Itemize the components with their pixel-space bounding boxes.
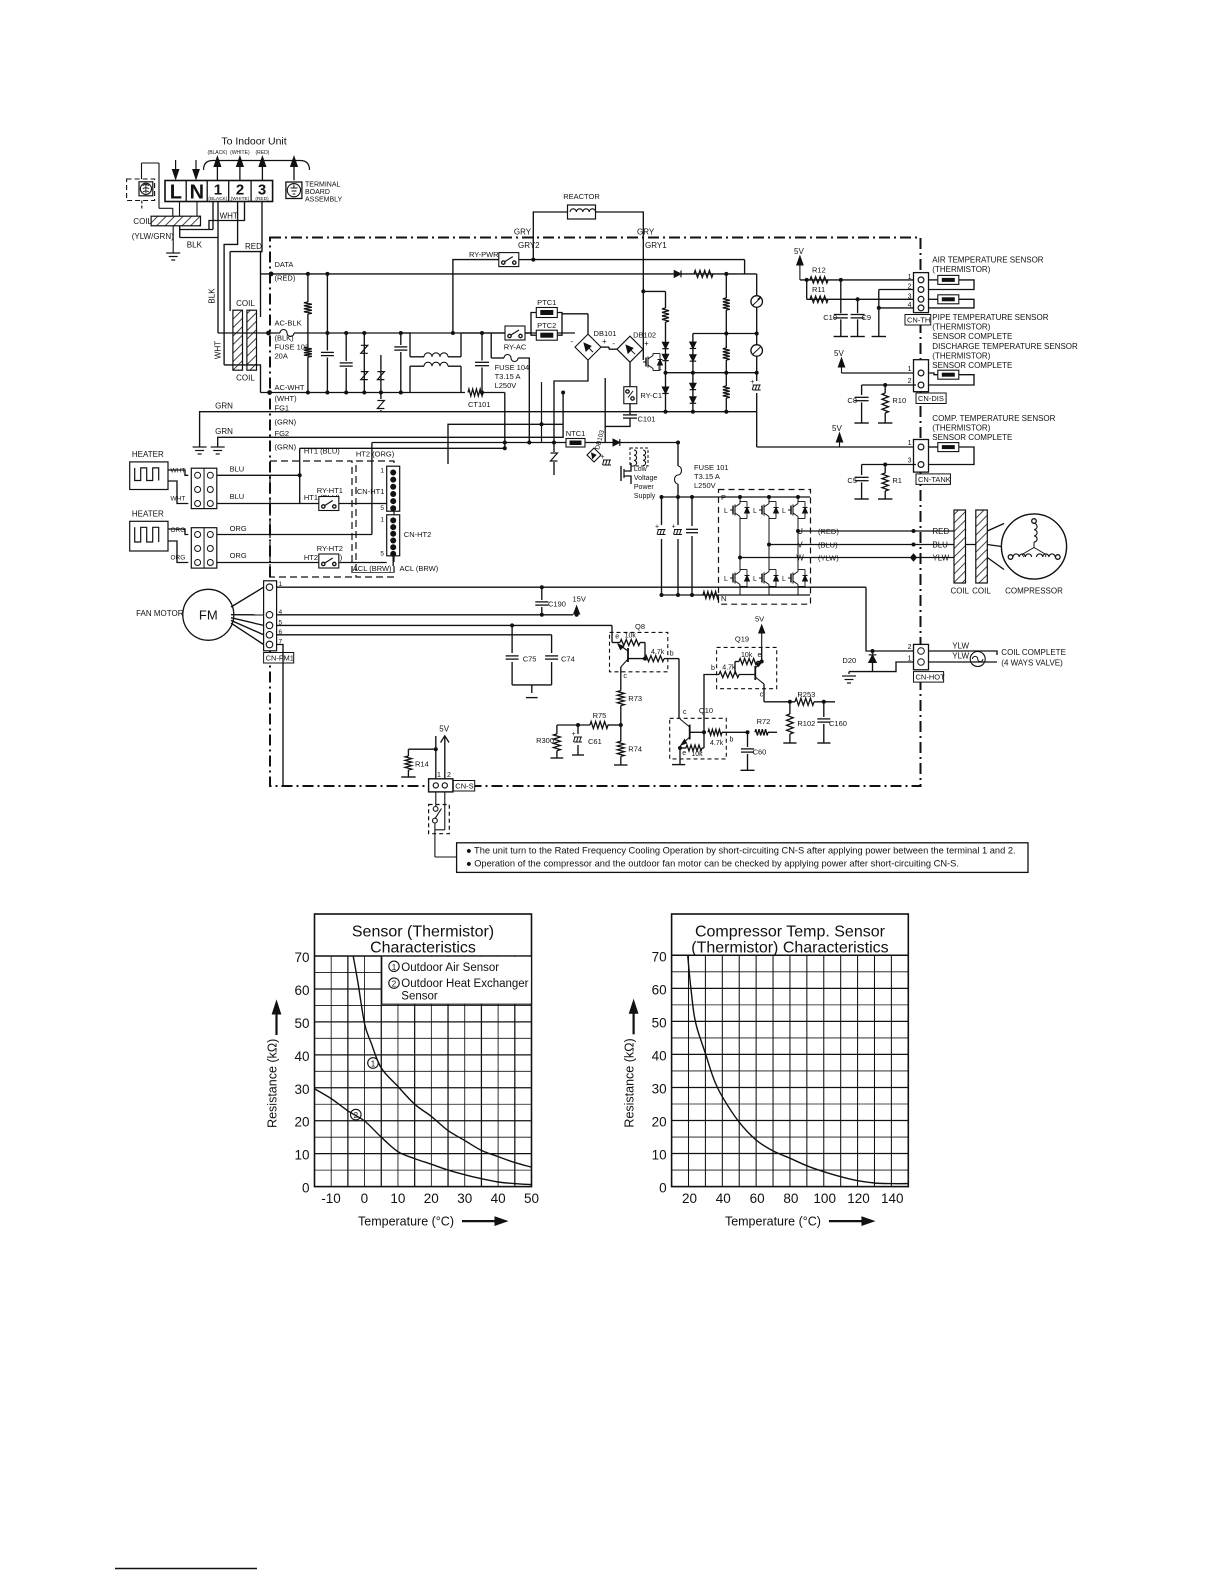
svg-text:2: 2 [236, 182, 244, 199]
svg-text:R10: R10 [892, 396, 906, 405]
svg-text:R1: R1 [892, 476, 902, 485]
svg-text:PTC1: PTC1 [537, 298, 556, 307]
svg-text:4.7k: 4.7k [651, 649, 665, 656]
svg-text:10k: 10k [691, 751, 703, 758]
svg-text:L: L [753, 576, 757, 583]
svg-text:2: 2 [908, 284, 912, 291]
svg-text:120: 120 [847, 1191, 870, 1206]
svg-text:5V: 5V [794, 247, 804, 256]
svg-text:Sensor: Sensor [401, 991, 438, 1003]
svg-text:(RED): (RED) [818, 527, 839, 536]
svg-text:YLW: YLW [952, 652, 969, 661]
svg-text:R73: R73 [628, 694, 642, 703]
svg-text:40: 40 [491, 1191, 506, 1206]
svg-text:BLU: BLU [230, 465, 245, 474]
svg-text:COMPRESSOR: COMPRESSOR [1005, 587, 1063, 596]
svg-text:R74: R74 [628, 745, 642, 754]
svg-text:3: 3 [258, 182, 266, 199]
svg-text:ORG: ORG [171, 527, 186, 534]
svg-text:ORG: ORG [171, 555, 186, 562]
svg-text:1: 1 [392, 963, 397, 972]
svg-text:YLW: YLW [932, 554, 949, 563]
svg-text:2: 2 [908, 378, 912, 385]
svg-text:REACTOR: REACTOR [563, 192, 600, 201]
svg-text:DB101: DB101 [594, 329, 617, 338]
svg-text:ACL (BRW): ACL (BRW) [400, 564, 439, 573]
svg-text:60: 60 [652, 982, 667, 997]
svg-text:2: 2 [354, 1111, 359, 1120]
svg-text:50: 50 [652, 1015, 667, 1030]
svg-text:SENSOR COMPLETE: SENSOR COMPLETE [932, 361, 1012, 370]
svg-text:RY-HT2: RY-HT2 [317, 544, 343, 553]
svg-text:C9: C9 [862, 313, 872, 322]
svg-text:L: L [724, 576, 728, 583]
svg-text:C5: C5 [847, 476, 857, 485]
svg-text:L: L [782, 508, 786, 515]
svg-text:1: 1 [380, 468, 384, 475]
svg-text:SENSOR COMPLETE: SENSOR COMPLETE [932, 332, 1012, 341]
svg-text:SENSOR COMPLETE: SENSOR COMPLETE [932, 433, 1012, 442]
svg-text:GRY1: GRY1 [645, 241, 667, 250]
svg-text:10: 10 [652, 1148, 667, 1163]
svg-text:COIL: COIL [950, 587, 969, 596]
svg-text:Characteristics: Characteristics [370, 939, 476, 956]
svg-text:RY-HT1: RY-HT1 [317, 486, 343, 495]
svg-text:(4 WAYS VALVE): (4 WAYS VALVE) [1001, 659, 1063, 668]
svg-text:ORG: ORG [230, 524, 247, 533]
svg-text:2: 2 [908, 644, 912, 651]
svg-text:COIL COMPLETE: COIL COMPLETE [1001, 648, 1066, 657]
svg-text:+: + [644, 339, 649, 348]
svg-text:c: c [683, 709, 687, 716]
svg-text:CN-HOT: CN-HOT [916, 673, 946, 682]
svg-text:C101: C101 [638, 415, 656, 424]
svg-text:(GRN): (GRN) [275, 443, 297, 452]
svg-text:3: 3 [908, 293, 912, 300]
svg-text:R12: R12 [812, 266, 826, 275]
svg-text:U: U [797, 527, 803, 536]
svg-text:30: 30 [294, 1082, 309, 1097]
svg-text:CT101: CT101 [468, 400, 491, 409]
svg-text:TERMINAL: TERMINAL [305, 182, 341, 189]
svg-text:FM: FM [199, 608, 218, 623]
svg-text:1: 1 [214, 182, 222, 199]
svg-text:2: 2 [392, 980, 397, 989]
svg-text:-10: -10 [321, 1191, 341, 1206]
svg-text:HT1 (BLU): HT1 (BLU) [304, 447, 340, 456]
svg-text:Low: Low [634, 466, 648, 473]
svg-text:T3.15 A: T3.15 A [694, 472, 720, 481]
svg-text:RED: RED [245, 242, 262, 251]
svg-text:1: 1 [908, 274, 912, 281]
svg-text:COIL: COIL [972, 587, 991, 596]
svg-text:N: N [190, 181, 204, 203]
svg-text:R11: R11 [812, 285, 825, 294]
svg-text:C75: C75 [523, 655, 537, 664]
svg-text:RY-AC: RY-AC [504, 343, 527, 352]
svg-text:W: W [796, 554, 804, 563]
svg-text:WHT: WHT [220, 211, 238, 220]
svg-text:e: e [682, 750, 686, 757]
svg-text:15V: 15V [573, 595, 586, 604]
svg-text:L: L [782, 576, 786, 583]
svg-text:C190: C190 [548, 600, 566, 609]
svg-text:Sensor (Thermistor): Sensor (Thermistor) [352, 923, 494, 940]
svg-text:COIL: COIL [133, 217, 152, 226]
svg-text:BLK: BLK [187, 241, 203, 250]
svg-text:(THERMISTOR): (THERMISTOR) [932, 265, 990, 274]
svg-text:1: 1 [908, 440, 912, 447]
svg-text:20: 20 [424, 1191, 439, 1206]
svg-text:20: 20 [294, 1115, 309, 1130]
svg-text:ACL (BRW): ACL (BRW) [353, 564, 392, 573]
svg-text:-: - [612, 339, 615, 348]
svg-text:5V: 5V [439, 725, 449, 734]
svg-text:R300: R300 [536, 736, 554, 745]
svg-text:0: 0 [659, 1181, 667, 1196]
svg-text:PIPE TEMPERATURE SENSOR: PIPE TEMPERATURE SENSOR [932, 313, 1048, 322]
svg-text:BLU: BLU [230, 492, 245, 501]
svg-text:4.7k: 4.7k [722, 665, 736, 672]
svg-text:FUSE 104: FUSE 104 [495, 363, 530, 372]
svg-text:20: 20 [652, 1115, 667, 1130]
svg-text:AC-WHT: AC-WHT [275, 383, 305, 392]
svg-text:ASSEMBLY: ASSEMBLY [305, 197, 343, 204]
svg-text:(BLACK): (BLACK) [208, 196, 227, 202]
svg-text:5V: 5V [834, 349, 844, 358]
svg-text:RY-C1: RY-C1 [640, 391, 662, 400]
svg-text:BOARD: BOARD [305, 189, 330, 196]
svg-text:L: L [724, 508, 728, 515]
svg-text:c: c [760, 692, 764, 699]
svg-text:1: 1 [371, 1060, 376, 1069]
svg-text:70: 70 [652, 949, 667, 964]
svg-text:Outdoor Heat Exchanger: Outdoor Heat Exchanger [401, 978, 528, 990]
svg-text:C8: C8 [847, 396, 857, 405]
svg-text:AIR TEMPERATURE SENSOR: AIR TEMPERATURE SENSOR [932, 256, 1044, 265]
svg-text:PTC2: PTC2 [537, 321, 556, 330]
svg-text:C74: C74 [561, 655, 575, 664]
svg-text:40: 40 [652, 1048, 667, 1063]
svg-text:60: 60 [750, 1191, 765, 1206]
svg-text:-: - [570, 337, 573, 346]
svg-text:(WHT): (WHT) [275, 394, 298, 403]
svg-text:(RED): (RED) [255, 196, 269, 202]
svg-text:GRY: GRY [637, 228, 655, 237]
svg-text:L250V: L250V [694, 481, 716, 490]
svg-text:Supply: Supply [634, 493, 656, 500]
svg-text:(YLW): (YLW) [818, 554, 839, 563]
svg-text:HEATER: HEATER [132, 450, 164, 459]
svg-text:CN-TANK: CN-TANK [918, 475, 951, 484]
svg-text:60: 60 [294, 983, 309, 998]
svg-text:T3.15 A: T3.15 A [495, 372, 521, 381]
svg-text:R14: R14 [415, 760, 429, 769]
svg-text:WHT: WHT [214, 341, 223, 359]
svg-text:L: L [170, 181, 182, 203]
svg-text:R102: R102 [797, 719, 815, 728]
svg-text:C61: C61 [588, 737, 602, 746]
svg-text:C60: C60 [753, 748, 767, 757]
svg-text:2: 2 [447, 772, 451, 779]
svg-text:70: 70 [294, 950, 309, 965]
svg-text:GRY2: GRY2 [518, 241, 540, 250]
svg-text:20: 20 [682, 1191, 697, 1206]
svg-text:(THERMISTOR): (THERMISTOR) [932, 352, 990, 361]
svg-text:FUSE 101: FUSE 101 [694, 463, 729, 472]
svg-text:c: c [623, 673, 627, 680]
svg-text:BLU: BLU [932, 541, 948, 550]
svg-text:0: 0 [302, 1181, 310, 1196]
svg-text:● The unit turn to the Rated: ● The unit turn to the Rated Frequency C… [466, 846, 1016, 856]
svg-text:HT2 (ORG): HT2 (ORG) [356, 450, 395, 459]
svg-text:CN-HT2: CN-HT2 [404, 530, 432, 539]
svg-text:(WHITE): (WHITE) [230, 150, 250, 156]
svg-text:3: 3 [908, 458, 912, 465]
svg-text:Temperature (°C): Temperature (°C) [358, 1215, 454, 1229]
svg-text:COMP. TEMPERATURE SENSOR: COMP. TEMPERATURE SENSOR [932, 414, 1055, 423]
svg-text:Q8: Q8 [635, 622, 645, 631]
svg-text:4.7k: 4.7k [710, 740, 724, 747]
svg-text:WHT: WHT [171, 468, 186, 475]
svg-text:WHT: WHT [171, 496, 186, 503]
svg-text:80: 80 [783, 1191, 798, 1206]
svg-text:5V: 5V [832, 424, 842, 433]
svg-text:(BLK): (BLK) [275, 334, 295, 343]
svg-text:● Operation of the compressor: ● Operation of the compressor and the ou… [466, 859, 959, 869]
svg-text:b: b [730, 737, 734, 744]
svg-text:YLW: YLW [952, 642, 969, 651]
svg-text:DISCHARGE TEMPERATURE SENSOR: DISCHARGE TEMPERATURE SENSOR [932, 342, 1078, 351]
svg-text:C160: C160 [829, 719, 847, 728]
svg-text:5: 5 [380, 505, 384, 512]
svg-text:DB102: DB102 [633, 331, 656, 340]
svg-text:R72: R72 [757, 717, 771, 726]
svg-text:CN-FM1: CN-FM1 [266, 654, 294, 663]
svg-text:1: 1 [380, 517, 384, 524]
svg-text:40: 40 [716, 1191, 731, 1206]
svg-text:10k: 10k [741, 652, 753, 659]
svg-text:e: e [758, 652, 762, 659]
svg-text:1: 1 [908, 366, 912, 373]
svg-text:50: 50 [524, 1191, 539, 1206]
svg-text:BLK: BLK [208, 288, 217, 304]
svg-text:Q19: Q19 [735, 635, 749, 644]
svg-text:(BLU): (BLU) [818, 541, 838, 550]
svg-text:CN-TH: CN-TH [907, 316, 930, 325]
svg-text:40: 40 [294, 1049, 309, 1064]
svg-text:To Indoor Unit: To Indoor Unit [221, 136, 286, 148]
svg-text:Resistance (kΩ): Resistance (kΩ) [623, 1038, 637, 1127]
svg-text:R253: R253 [797, 690, 815, 699]
svg-text:(Thermistor) Characteristics: (Thermistor) Characteristics [691, 939, 888, 956]
svg-text:5V: 5V [755, 615, 764, 624]
svg-text:(YLW/GRN): (YLW/GRN) [132, 232, 174, 241]
svg-text:Temperature (°C): Temperature (°C) [725, 1215, 821, 1229]
svg-text:GRN: GRN [215, 402, 233, 411]
svg-text:e: e [615, 634, 619, 641]
svg-text:(WHITE): (WHITE) [231, 196, 250, 202]
svg-text:1: 1 [437, 772, 441, 779]
svg-text:FAN MOTOR: FAN MOTOR [136, 609, 184, 618]
svg-text:(RED): (RED) [275, 274, 296, 283]
svg-text:(RED): (RED) [255, 150, 269, 156]
svg-text:(BLACK): (BLACK) [208, 150, 228, 156]
svg-text:COIL: COIL [236, 374, 255, 383]
svg-text:5: 5 [380, 551, 384, 558]
svg-text:COIL: COIL [236, 299, 255, 308]
svg-text:GRN: GRN [215, 427, 233, 436]
svg-text:Voltage: Voltage [634, 475, 657, 482]
svg-text:Power: Power [634, 484, 655, 491]
svg-text:+: + [602, 337, 607, 346]
svg-text:140: 140 [881, 1191, 904, 1206]
svg-text:(GRN): (GRN) [275, 418, 297, 427]
svg-text:L250V: L250V [495, 381, 517, 390]
svg-text:CN-DIS: CN-DIS [918, 394, 944, 403]
svg-text:D20: D20 [842, 656, 856, 665]
svg-text:L: L [753, 508, 757, 515]
svg-text:b: b [670, 651, 674, 658]
svg-text:10: 10 [390, 1191, 405, 1206]
svg-text:Compressor Temp. Sensor: Compressor Temp. Sensor [695, 923, 886, 940]
svg-text:Outdoor Air Sensor: Outdoor Air Sensor [401, 962, 499, 974]
svg-text:L: L [658, 365, 662, 372]
svg-text:C10: C10 [823, 313, 837, 322]
svg-text:50: 50 [294, 1016, 309, 1031]
svg-text:GRY: GRY [514, 228, 532, 237]
svg-text:HEATER: HEATER [132, 510, 164, 519]
svg-text:(THERMISTOR): (THERMISTOR) [932, 424, 990, 433]
svg-text:30: 30 [457, 1191, 472, 1206]
svg-text:b: b [711, 665, 715, 672]
svg-text:Resistance (kΩ): Resistance (kΩ) [266, 1039, 280, 1128]
svg-text:4: 4 [908, 302, 912, 309]
svg-text:DATA: DATA [275, 260, 294, 269]
svg-text:AC-BLK: AC-BLK [275, 319, 302, 328]
svg-text:RY-PWR: RY-PWR [469, 250, 499, 259]
svg-text:10: 10 [294, 1148, 309, 1163]
svg-text:100: 100 [813, 1191, 836, 1206]
svg-text:ORG: ORG [230, 551, 247, 560]
svg-text:CN-S: CN-S [455, 782, 473, 791]
svg-text:V: V [797, 541, 803, 550]
svg-text:30: 30 [652, 1081, 667, 1096]
svg-text:CN-HT1: CN-HT1 [357, 487, 385, 496]
svg-text:R75: R75 [593, 711, 607, 720]
svg-text:(THERMISTOR): (THERMISTOR) [932, 323, 990, 332]
svg-text:NTC1: NTC1 [566, 429, 586, 438]
svg-text:Q10: Q10 [699, 706, 713, 715]
svg-text:0: 0 [361, 1191, 369, 1206]
svg-text:20A: 20A [275, 352, 288, 361]
